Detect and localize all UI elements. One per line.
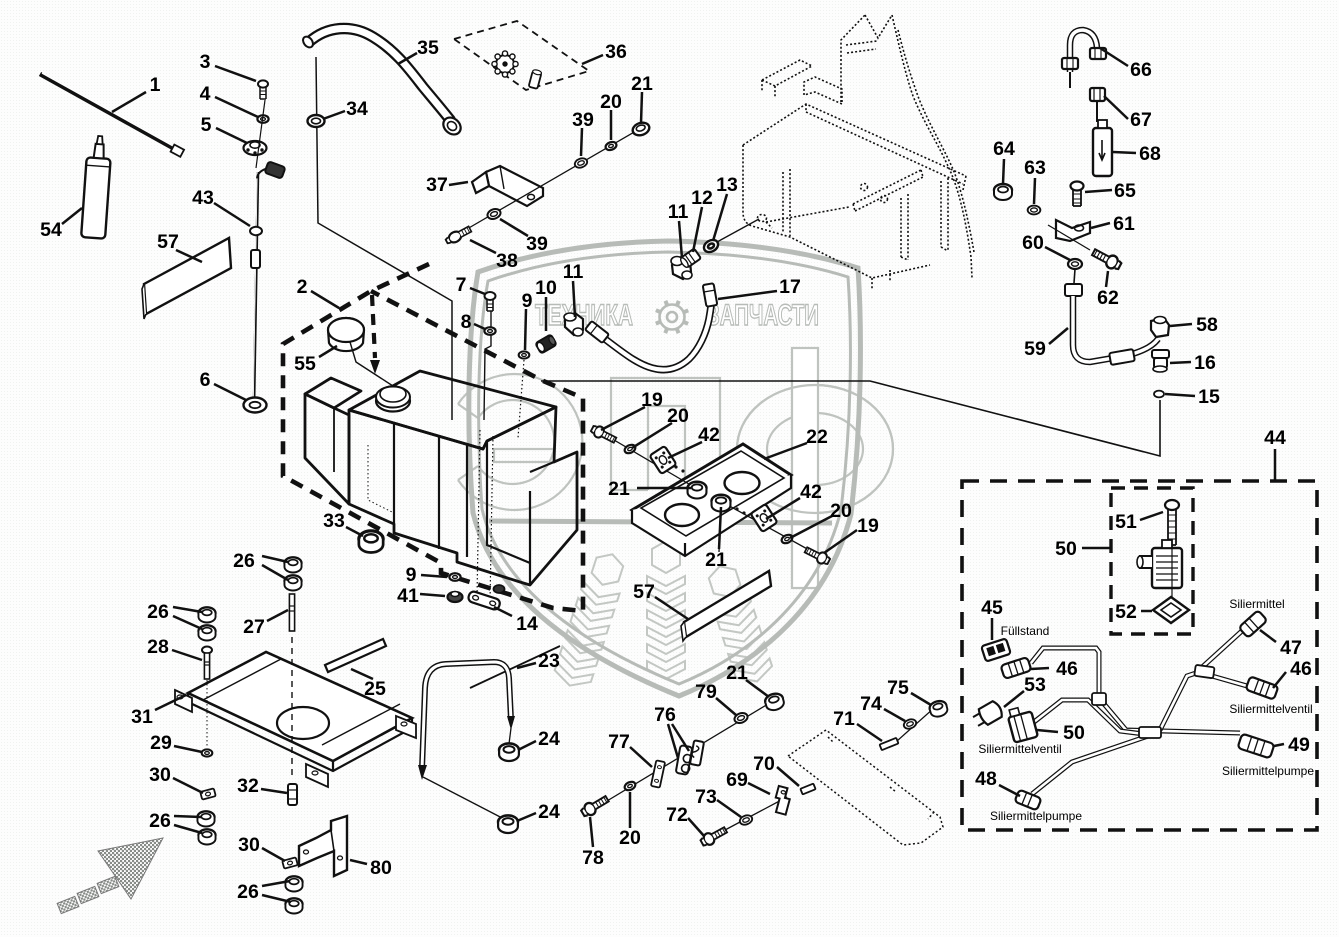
svg-text:33: 33 — [323, 510, 345, 532]
leader line — [1031, 668, 1049, 669]
svg-text:Siliermittelpumpe: Siliermittelpumpe — [990, 809, 1082, 823]
svg-text:57: 57 — [633, 581, 655, 603]
filler neck — [376, 386, 410, 412]
svg-text:37: 37 — [426, 174, 448, 196]
svg-text:2: 2 — [297, 276, 308, 298]
leader line — [517, 663, 536, 668]
bolt 78 — [580, 793, 611, 818]
leader line — [1085, 190, 1112, 192]
leader line — [1091, 223, 1110, 228]
nut 33 — [359, 531, 383, 553]
tube 54 — [81, 135, 112, 238]
dashed box 50 — [1111, 488, 1193, 634]
watermark shield outer border — [469, 241, 861, 696]
machine body outline (dotted sketch) — [743, 15, 974, 290]
svg-text:42: 42 — [698, 424, 720, 446]
nut 75 — [928, 699, 948, 718]
svg-text:43: 43 — [192, 187, 214, 209]
washer 39 (upper) — [573, 157, 588, 170]
leader line — [1140, 512, 1163, 520]
nut 21 (bottom) — [764, 692, 786, 712]
cable 46a to 49 — [1031, 648, 1240, 733]
plate 42 (left) — [649, 446, 676, 474]
fitting 46b — [1246, 676, 1279, 699]
leader line — [601, 407, 645, 430]
leader line — [500, 219, 528, 236]
leader line — [717, 800, 741, 817]
leader line — [1274, 449, 1277, 480]
leader line — [590, 817, 593, 847]
svg-text:38: 38 — [496, 250, 518, 272]
tray 22 — [632, 444, 791, 543]
leader line — [474, 324, 485, 329]
svg-text:35: 35 — [417, 37, 439, 59]
connector 45 — [981, 638, 1011, 661]
svg-text:52: 52 — [1115, 601, 1137, 623]
leader line — [790, 516, 832, 538]
hose 59 — [1065, 284, 1082, 296]
plate 31 — [188, 652, 412, 761]
leader line — [1037, 730, 1058, 732]
bracket 80 — [299, 816, 347, 876]
svg-text:6: 6 — [200, 369, 211, 391]
svg-text:31: 31 — [131, 706, 153, 728]
leader line — [632, 423, 672, 448]
tank 2 body — [349, 371, 556, 449]
svg-text:10: 10 — [535, 277, 557, 299]
leader line — [174, 746, 202, 752]
leader line — [216, 128, 247, 143]
svg-text:46: 46 — [1290, 658, 1312, 680]
leader line — [1260, 630, 1276, 642]
leader line — [173, 778, 203, 793]
bolt 51 — [1165, 500, 1179, 545]
watermark wheat stalk — [702, 560, 776, 687]
nuts 26 (mid col bottom) — [285, 876, 302, 891]
cap 55 — [328, 318, 364, 351]
leader line — [999, 785, 1020, 796]
leader line — [630, 747, 652, 767]
leader line — [1045, 247, 1070, 260]
leader line — [713, 194, 727, 241]
leader line — [1170, 362, 1191, 363]
sensor rod 43 — [256, 100, 265, 168]
washer 30 (mid) — [282, 857, 298, 868]
hose ferrule left — [585, 321, 609, 343]
leader line — [610, 110, 613, 140]
svg-text:62: 62 — [1097, 287, 1119, 309]
leader line — [1034, 178, 1035, 204]
nut 21 (top) — [631, 121, 651, 138]
bracket 61 — [1056, 220, 1090, 241]
leader line — [112, 92, 146, 112]
watermark gear icon — [656, 301, 688, 333]
svg-text:11: 11 — [563, 261, 584, 283]
svg-text:73: 73 — [695, 786, 717, 808]
boundary line — [541, 381, 1160, 456]
svg-text:47: 47 — [1280, 637, 1302, 659]
svg-text:20: 20 — [830, 500, 852, 522]
leader line — [629, 792, 632, 828]
leader line — [262, 556, 288, 562]
cable to pump 48 — [1032, 736, 1148, 794]
svg-text:13: 13 — [716, 174, 738, 196]
svg-text:58: 58 — [1196, 314, 1218, 336]
svg-text:21: 21 — [631, 73, 653, 95]
washer 29 — [202, 749, 213, 756]
part 2 dashed outline box — [283, 264, 583, 611]
ring 6 — [244, 398, 267, 413]
leader line — [346, 527, 363, 536]
footboard — [788, 730, 943, 845]
leader line — [716, 698, 736, 715]
leader line — [1004, 691, 1024, 707]
watermark big letter П — [611, 378, 720, 490]
leader line — [672, 724, 689, 751]
svg-text:79: 79 — [695, 681, 717, 703]
svg-text:57: 57 — [157, 231, 179, 253]
fitting 48 — [1014, 789, 1041, 810]
sticker 57 (right) — [684, 571, 771, 637]
strip 25 — [325, 639, 386, 672]
coil 50 — [1137, 540, 1182, 588]
svg-text:67: 67 — [1130, 109, 1152, 131]
leader line — [62, 208, 82, 224]
bracket 37 — [472, 166, 543, 206]
nut 64 — [994, 184, 1012, 200]
svg-text:Siliermittelpumpe: Siliermittelpumpe — [1222, 764, 1314, 778]
leader line — [693, 207, 702, 252]
leader line — [470, 288, 485, 294]
washer 20 (bottom) — [623, 780, 636, 792]
bolt 28 — [202, 647, 212, 654]
filter 68 — [1093, 120, 1112, 176]
pin 71 — [880, 738, 899, 750]
svg-text:51: 51 — [1115, 511, 1137, 533]
leader line — [641, 92, 642, 123]
svg-text:28: 28 — [147, 636, 169, 658]
leader line — [991, 618, 994, 640]
fitting 16 — [1152, 350, 1169, 372]
svg-text:75: 75 — [887, 677, 909, 699]
svg-text:27: 27 — [243, 616, 265, 638]
svg-text:36: 36 — [605, 41, 627, 63]
fitting 67 — [1090, 88, 1105, 101]
svg-text:8: 8 — [461, 311, 472, 333]
leader line — [1141, 610, 1152, 613]
leader line — [719, 507, 721, 549]
leader line — [766, 498, 800, 519]
svg-text:24: 24 — [538, 801, 560, 823]
plate 14 — [467, 590, 501, 610]
elbow 58 — [1151, 317, 1169, 338]
cable to fitting 46b — [1212, 676, 1247, 686]
svg-text:30: 30 — [238, 834, 260, 856]
svg-text:26: 26 — [233, 550, 255, 572]
dashed kit box 36 — [454, 21, 589, 90]
leader line — [449, 182, 468, 185]
svg-text:59: 59 — [1024, 338, 1046, 360]
watermark wheat stalk — [552, 548, 631, 691]
leader line — [857, 724, 882, 741]
svg-text:78: 78 — [582, 847, 604, 869]
part 2 arrow to tank — [372, 295, 375, 358]
fitting 46a — [1001, 657, 1032, 679]
leader line — [262, 848, 285, 861]
leader line — [494, 607, 512, 616]
washer 4 — [257, 115, 268, 123]
washer 73 — [738, 814, 753, 827]
leader line — [1106, 271, 1108, 287]
bolt 7 — [485, 292, 496, 311]
svg-text:71: 71 — [833, 708, 855, 730]
svg-text:65: 65 — [1114, 180, 1136, 202]
svg-text:11: 11 — [668, 201, 689, 223]
leader line — [748, 783, 770, 794]
plug 41 — [448, 592, 463, 603]
leader line — [764, 443, 807, 459]
leader line — [1113, 152, 1136, 153]
fitting 10 — [535, 334, 557, 354]
fitting 60 — [1068, 259, 1082, 269]
clamp 76 — [676, 745, 694, 775]
leader line — [573, 281, 575, 317]
ring 15 — [1154, 391, 1164, 398]
svg-text:7: 7 — [456, 274, 467, 296]
bolt 19 (left) — [590, 423, 618, 445]
fitting 49 — [1238, 734, 1275, 759]
nut 24 (lower) — [498, 815, 518, 833]
projection line from hose 35 — [316, 57, 452, 420]
svg-text:39: 39 — [526, 233, 548, 255]
svg-text:4: 4 — [200, 83, 211, 105]
cable valve 50 to junction — [1034, 700, 1160, 736]
svg-text:26: 26 — [147, 601, 169, 623]
leader line — [420, 594, 445, 596]
svg-text:60: 60 — [1022, 232, 1044, 254]
svg-text:26: 26 — [237, 881, 259, 903]
leader line — [1104, 96, 1128, 119]
stud 27 — [289, 594, 294, 631]
leader line — [777, 767, 799, 786]
svg-text:46: 46 — [1056, 658, 1078, 680]
cable up to junction C — [1160, 672, 1199, 730]
svg-text:66: 66 — [1130, 59, 1152, 81]
leader line — [1100, 48, 1128, 66]
svg-text:9: 9 — [522, 290, 533, 312]
hose 35 — [309, 28, 451, 121]
plate 77 — [651, 760, 665, 787]
nuts 26 (left col bottom) — [197, 811, 214, 826]
svg-text:16: 16 — [1194, 352, 1216, 374]
svg-text:48: 48 — [975, 768, 997, 790]
striped arrow — [98, 838, 163, 899]
svg-text:50: 50 — [1055, 538, 1077, 560]
leader line — [1165, 394, 1195, 396]
bolt 19 (right) — [803, 545, 831, 567]
svg-text:25: 25 — [364, 678, 386, 700]
hose ferrule right — [703, 283, 718, 307]
leader line — [174, 816, 201, 817]
svg-text:49: 49 — [1288, 734, 1310, 756]
svg-text:45: 45 — [981, 597, 1003, 619]
svg-text:22: 22 — [806, 426, 828, 448]
svg-text:21: 21 — [705, 549, 727, 571]
leader line — [173, 607, 202, 612]
leader line — [1049, 328, 1068, 344]
axis 72-69 — [710, 797, 787, 838]
fitting 12 — [679, 248, 701, 268]
leader line — [688, 818, 704, 836]
leader line — [311, 291, 339, 308]
leader line — [668, 442, 702, 458]
svg-text:55: 55 — [294, 353, 316, 375]
svg-text:69: 69 — [726, 769, 748, 791]
svg-text:39: 39 — [572, 109, 594, 131]
junction blocks — [1092, 665, 1215, 738]
leader line — [518, 741, 536, 750]
leader line — [323, 111, 345, 119]
svg-text:21: 21 — [726, 662, 748, 684]
U bracket 23 — [422, 662, 511, 769]
nuts 26 (mid col) — [284, 557, 301, 572]
watermark wheat stalk — [647, 541, 685, 679]
washer 8 — [484, 327, 495, 335]
svg-text:76: 76 — [654, 704, 676, 726]
svg-text:64: 64 — [993, 138, 1015, 160]
leader line — [214, 384, 246, 400]
nut 24 (upper) — [499, 743, 519, 761]
seal 52 — [1153, 597, 1189, 623]
svg-text:29: 29 — [150, 732, 172, 754]
svg-text:20: 20 — [600, 91, 622, 113]
leader line — [173, 616, 202, 629]
leader line — [172, 650, 202, 660]
svg-text:12: 12 — [691, 187, 713, 209]
leader line — [824, 530, 857, 553]
bracket 69 — [772, 786, 792, 815]
leader line — [351, 669, 373, 679]
washer 20 (right) — [780, 533, 793, 545]
leader line — [262, 895, 291, 902]
leader line — [911, 693, 931, 705]
watermark big letter Э — [458, 374, 582, 510]
hose 17 — [601, 292, 712, 370]
bolt 72 — [699, 825, 728, 849]
washer 74 — [902, 718, 917, 731]
watermark big letter Ф — [737, 348, 893, 588]
washer 79 — [733, 711, 749, 724]
svg-text:3: 3 — [200, 51, 211, 73]
nuts 26 (left col) — [198, 607, 215, 622]
plug 53 — [971, 700, 1004, 730]
svg-text:20: 20 — [619, 827, 641, 849]
washer 20 (left) — [623, 443, 636, 455]
leader line — [1082, 547, 1110, 550]
connector 47 — [1239, 610, 1268, 638]
svg-text:20: 20 — [667, 405, 689, 427]
leader line — [155, 695, 186, 710]
leader line — [1274, 744, 1284, 746]
washer 63 — [1028, 206, 1041, 215]
leader line — [262, 881, 290, 886]
leader line — [398, 53, 417, 64]
sticker 57 (left) — [144, 238, 231, 314]
spacer 32 — [288, 784, 297, 805]
washer 20 (top) — [604, 141, 617, 152]
leader line — [582, 55, 603, 64]
plug 65 — [1071, 182, 1084, 207]
leader line — [746, 680, 769, 697]
leader line — [350, 860, 367, 864]
svg-text:Siliermittel: Siliermittel — [1229, 597, 1284, 611]
leader line — [174, 825, 202, 833]
svg-text:77: 77 — [608, 731, 630, 753]
bolt 3 — [258, 80, 268, 99]
svg-text:44: 44 — [1264, 427, 1286, 449]
leader line — [319, 346, 337, 357]
leader line — [545, 297, 548, 331]
nut 21 (on tray left) — [688, 482, 707, 499]
pin 70 — [800, 784, 815, 795]
leader line — [470, 240, 496, 253]
ring 13 — [702, 237, 720, 254]
svg-text:53: 53 — [1024, 674, 1046, 696]
svg-text:41: 41 — [397, 585, 419, 607]
svg-text:1: 1 — [150, 74, 161, 96]
svg-text:14: 14 — [516, 613, 538, 635]
leader line — [421, 575, 447, 577]
valve 50b — [1006, 705, 1038, 743]
leader line — [655, 597, 688, 619]
elbow fitting 11 (left) — [564, 313, 583, 336]
svg-text:80: 80 — [370, 857, 392, 879]
axis 78-21 — [592, 701, 773, 810]
washer 30 (left) — [200, 788, 216, 799]
watermark horizontal band — [489, 521, 832, 523]
svg-text:23: 23 — [538, 650, 560, 672]
watermark shield inner border — [479, 252, 851, 684]
svg-text:34: 34 — [346, 98, 368, 120]
svg-text:26: 26 — [149, 810, 171, 832]
washer 39 (lower) — [486, 207, 502, 220]
leader line — [679, 221, 682, 258]
svg-text:72: 72 — [666, 804, 688, 826]
svg-text:50: 50 — [1063, 722, 1085, 744]
leader line — [261, 789, 287, 793]
leader line — [1170, 324, 1192, 326]
leader line — [581, 128, 582, 156]
bolt 62 — [1090, 246, 1122, 272]
cable to connector 47 — [1199, 630, 1243, 670]
tube 66 — [1070, 30, 1098, 72]
svg-text:ЗАПЧАСТИ: ЗАПЧАСТИ — [707, 299, 819, 332]
svg-text:Füllstand: Füllstand — [1001, 624, 1050, 638]
washer 9 (top) — [519, 351, 530, 358]
bolt 38 — [444, 225, 472, 246]
plate 42 (right) — [750, 504, 777, 532]
svg-text:21: 21 — [608, 478, 630, 500]
svg-text:42: 42 — [800, 481, 822, 503]
svg-text:19: 19 — [857, 515, 879, 537]
leader line — [718, 291, 777, 299]
leader line — [1003, 159, 1004, 184]
leader line — [215, 66, 256, 81]
leader line — [884, 709, 905, 721]
svg-text:5: 5 — [201, 114, 212, 136]
leader line — [262, 565, 288, 580]
svg-text:19: 19 — [641, 389, 663, 411]
